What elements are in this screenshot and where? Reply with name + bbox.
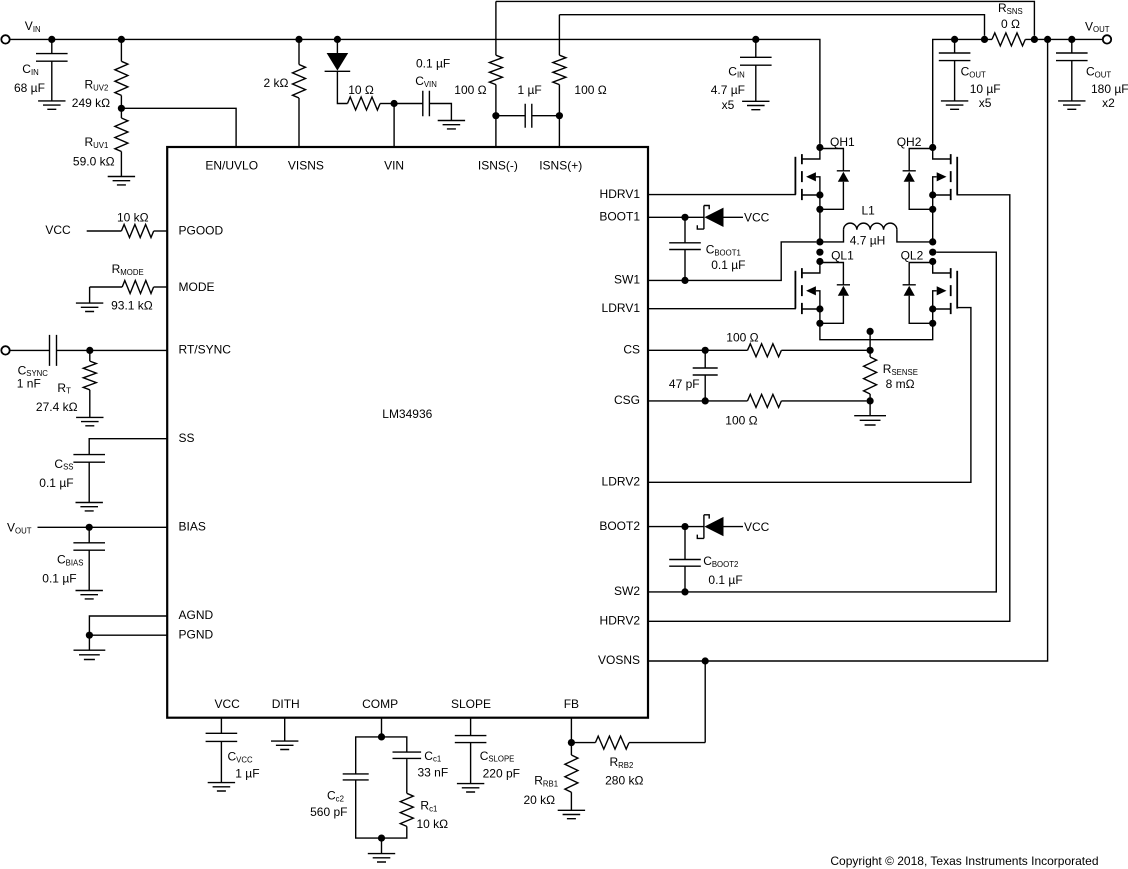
- resistor 100R CSG: [725, 394, 866, 427]
- diode DBOOT2 schottky to VCC: [697, 515, 769, 539]
- wire QL1/QL2 sources to RSENSE: [820, 323, 933, 354]
- capacitor CSLOPE 220pF: [455, 718, 520, 784]
- pin label LDRV1: [602, 301, 641, 315]
- resistor 2k VISNS: [264, 36, 306, 147]
- resistor RSENSE 8mOhm: [864, 350, 918, 401]
- wire LDRV1 to QL1 gate: [648, 308, 796, 310]
- svg-text:PGND: PGND: [179, 627, 214, 641]
- wire PGOOD pull-up: [45, 223, 121, 237]
- svg-text:Copyright © 2018, Texas Instru: Copyright © 2018, Texas Instruments Inco…: [830, 854, 1098, 868]
- wire PGND: [89, 634, 167, 636]
- svg-text:220 pF: 220 pF: [483, 766, 520, 780]
- svg-text:SS: SS: [179, 431, 195, 445]
- pin label SS: [179, 431, 195, 445]
- wire VOSNS sense line: [648, 36, 1051, 661]
- node CBOOT1 to SW1: [681, 277, 688, 284]
- pin label DITH: [272, 697, 300, 711]
- svg-text:0.1 µF: 0.1 µF: [39, 476, 73, 490]
- transistor QH2: [897, 135, 958, 213]
- svg-text:FB: FB: [564, 697, 579, 711]
- node VIN pin junction: [391, 100, 398, 107]
- svg-text:VCC: VCC: [744, 520, 770, 534]
- svg-text:VIN: VIN: [384, 159, 404, 173]
- resistor 100R ISNS(+): [553, 55, 607, 97]
- svg-text:VOSNS: VOSNS: [598, 653, 640, 667]
- node BIAS junction: [86, 524, 93, 531]
- svg-text:LDRV2: LDRV2: [602, 475, 641, 489]
- wire ISNS(+) sense line: [559, 15, 984, 147]
- svg-text:10 Ω: 10 Ω: [348, 83, 374, 97]
- svg-text:RT/SYNC: RT/SYNC: [179, 343, 232, 357]
- node RT junction: [86, 347, 93, 354]
- ground below COUT 180uF: [1058, 101, 1085, 109]
- wire QH1 source to SW1: [819, 209, 821, 242]
- svg-text:8 mΩ: 8 mΩ: [886, 377, 915, 391]
- svg-text:L1: L1: [862, 203, 876, 217]
- svg-text:SW1: SW1: [614, 273, 640, 287]
- pin label VIN: [384, 159, 404, 173]
- pin label ISNS(-): [478, 159, 518, 173]
- pin label HDRV2: [600, 614, 641, 628]
- svg-text:VCC: VCC: [45, 223, 71, 237]
- svg-text:DITH: DITH: [272, 697, 300, 711]
- capacitor CBIAS 0.1uF: [42, 527, 105, 590]
- wire CSG pin: [648, 400, 748, 402]
- node CBOOT2 to SW2: [681, 588, 688, 595]
- node SW1 mid dot: [816, 249, 823, 256]
- wire FB to VOSNS: [704, 661, 706, 743]
- svg-text:ISNS(+): ISNS(+): [539, 159, 582, 173]
- wire DITH to ground: [284, 718, 286, 741]
- pin label VISNS: [288, 159, 324, 173]
- capacitor CVCC 1uF: [206, 718, 260, 783]
- svg-text:BOOT1: BOOT1: [599, 210, 640, 224]
- pin label LDRV2: [602, 475, 641, 489]
- ground at DITH: [271, 741, 298, 749]
- resistor RUV1 59k: [73, 108, 128, 176]
- pin label RT/SYNC: [179, 343, 232, 357]
- svg-text:QL1: QL1: [831, 249, 854, 263]
- svg-text:x5: x5: [722, 98, 735, 112]
- diode D1 input: [325, 36, 351, 104]
- transistor QH1: [795, 135, 855, 213]
- resistor RSNS 0R: [981, 1, 1038, 46]
- svg-text:180 µF: 180 µF: [1091, 82, 1128, 96]
- svg-text:59.0 kΩ: 59.0 kΩ: [73, 154, 115, 168]
- node COMP network bottom: [378, 835, 385, 842]
- svg-text:2 kΩ: 2 kΩ: [264, 76, 289, 90]
- ground below RT: [76, 417, 103, 425]
- svg-text:93.1 kΩ: 93.1 kΩ: [111, 299, 153, 313]
- pin label SW1: [614, 273, 640, 287]
- ground below COUT 10uF: [941, 101, 968, 109]
- node SYNC input terminal: [1, 346, 9, 354]
- wire BOOT2: [648, 526, 704, 528]
- pin label VOSNS: [598, 653, 640, 667]
- wire HDRV1 to QH1 gate: [648, 194, 796, 196]
- copyright notice: [830, 854, 1098, 868]
- pin label BOOT2: [599, 519, 640, 533]
- svg-text:VCC: VCC: [215, 697, 241, 711]
- svg-text:CSG: CSG: [614, 393, 640, 407]
- resistor RRB2 280k: [571, 736, 705, 788]
- node EN/UVLO junction: [118, 105, 125, 112]
- pin label MODE: [179, 280, 215, 294]
- node FB junction: [568, 739, 575, 746]
- wire LDRV2 to QL2 gate: [648, 308, 971, 483]
- wire EN/UVLO to IC: [121, 108, 236, 147]
- pin label CSG: [614, 393, 640, 407]
- pin label SW2: [614, 584, 640, 598]
- svg-text:HDRV1: HDRV1: [600, 187, 641, 201]
- op-amp U1 LM34936 controller IC: [167, 147, 648, 718]
- node BOOT1 junction: [681, 214, 688, 221]
- capacitor CVIN 0.1uF: [394, 56, 451, 120]
- capacitor Cc1 33nF: [382, 737, 449, 793]
- ground below CVIN: [438, 121, 465, 129]
- svg-text:CS: CS: [623, 343, 640, 357]
- svg-text:QH1: QH1: [830, 135, 855, 149]
- wire HDRV2 to QH2 gate: [648, 195, 1010, 622]
- svg-text:0.1 µF: 0.1 µF: [711, 258, 745, 272]
- svg-text:100 Ω: 100 Ω: [574, 83, 606, 97]
- pin label CS: [623, 343, 640, 357]
- wire RSENSE to ground: [869, 401, 871, 416]
- wire ISNS(-) sense line: [496, 1, 1035, 147]
- svg-text:280 kΩ: 280 kΩ: [605, 774, 643, 788]
- node VIN input terminal: [1, 19, 40, 43]
- svg-text:0 Ω: 0 Ω: [1001, 17, 1020, 31]
- svg-text:68 µF: 68 µF: [14, 81, 45, 95]
- svg-text:BOOT2: BOOT2: [599, 519, 640, 533]
- resistor RRB1 20k: [524, 743, 578, 811]
- resistor 100R ISNS(-): [454, 55, 502, 97]
- node AGND/PGND junction: [86, 632, 93, 639]
- ground below COMP network: [368, 854, 395, 862]
- svg-text:SW2: SW2: [614, 584, 640, 598]
- capacitor COUT 10uF x5: [939, 36, 1001, 110]
- capacitor CIN 4.7uF x5: [711, 36, 772, 112]
- svg-text:MODE: MODE: [179, 280, 215, 294]
- ground below RSENSE: [854, 416, 886, 425]
- wire COMP network to ground: [381, 838, 383, 854]
- svg-text:10 kΩ: 10 kΩ: [417, 817, 449, 831]
- svg-text:PGOOD: PGOOD: [179, 223, 224, 237]
- diode DBOOT1 schottky to VCC: [697, 206, 769, 230]
- svg-text:BIAS: BIAS: [179, 520, 206, 534]
- resistor 10k PGOOD: [117, 211, 167, 238]
- wire VIN rail: [9, 39, 820, 143]
- ground below CVCC: [208, 783, 235, 791]
- wire CS pin: [648, 349, 748, 351]
- resistor 10R VIN filter: [348, 83, 395, 110]
- svg-text:COMP: COMP: [362, 697, 398, 711]
- wire BIAS from VOUT: [7, 521, 167, 536]
- svg-text:LM34936: LM34936: [382, 407, 432, 421]
- ground below CSLOPE: [457, 784, 484, 792]
- capacitor 1uF ISNS filter: [492, 83, 563, 128]
- svg-text:0.1 µF: 0.1 µF: [42, 572, 76, 586]
- svg-text:1 nF: 1 nF: [17, 376, 41, 390]
- pin label BIAS: [179, 520, 206, 534]
- node CSG filter junction: [702, 397, 709, 404]
- wire QH2 source to SW2: [932, 209, 934, 242]
- svg-text:0.1 µF: 0.1 µF: [416, 56, 450, 70]
- node VOUT output terminal: [1085, 19, 1111, 43]
- capacitor CSYNC 1nF: [9, 335, 167, 391]
- transistor QL1: [795, 249, 854, 327]
- svg-text:560 pF: 560 pF: [310, 805, 347, 819]
- svg-text:100 Ω: 100 Ω: [726, 330, 758, 344]
- svg-text:ISNS(-): ISNS(-): [478, 159, 518, 173]
- wire BOOT1: [648, 216, 704, 218]
- pin label FB: [564, 697, 579, 711]
- pin label EN/UVLO: [205, 159, 258, 173]
- ground at RMODE: [76, 303, 103, 311]
- resistor RUV2 249k: [72, 36, 128, 110]
- svg-text:20 kΩ: 20 kΩ: [524, 793, 556, 807]
- capacitor COUT 180uF x2: [1056, 36, 1128, 110]
- wire SW2 to switch node: [648, 252, 996, 592]
- pin label AGND: [179, 608, 214, 622]
- svg-text:33 nF: 33 nF: [418, 765, 449, 779]
- svg-text:HDRV2: HDRV2: [600, 614, 641, 628]
- svg-text:VISNS: VISNS: [288, 159, 324, 173]
- svg-text:VCC: VCC: [744, 211, 770, 225]
- svg-text:x2: x2: [1102, 96, 1115, 110]
- svg-text:LDRV1: LDRV1: [602, 301, 641, 315]
- resistor RT 27.4k: [36, 350, 96, 417]
- node CSG junction at RSENSE: [867, 397, 874, 404]
- pin label PGOOD: [179, 223, 224, 237]
- pin label BOOT1: [599, 210, 640, 224]
- pin label PGND: [179, 627, 214, 641]
- node VOSNS junction: [702, 657, 709, 664]
- svg-text:1 µF: 1 µF: [518, 83, 542, 97]
- capacitor CIN 68uF: [14, 36, 68, 101]
- node CS filter junction: [702, 347, 709, 354]
- pin label COMP: [362, 697, 398, 711]
- ground below RUV1: [108, 177, 135, 185]
- capacitor Cc2 560pF: [310, 737, 381, 838]
- wire PGND to ground: [88, 635, 90, 650]
- ground below CIN: [38, 101, 65, 109]
- node COMP junction: [378, 733, 385, 740]
- ground below CBIAS: [76, 591, 103, 599]
- wire COMP stub: [381, 718, 383, 737]
- resistor RMODE 93.1k: [90, 262, 168, 313]
- capacitor 47pF CS filter: [669, 350, 718, 401]
- svg-text:EN/UVLO: EN/UVLO: [205, 159, 258, 173]
- node BOOT2 junction: [681, 523, 688, 530]
- transistor QL2: [901, 249, 958, 327]
- pin label VCC: [215, 697, 241, 711]
- resistor Rc1 10k: [382, 793, 449, 838]
- node SW2 mid dot: [929, 249, 936, 256]
- wire SW1 to switch node: [648, 242, 816, 281]
- svg-text:QL2: QL2: [901, 249, 924, 263]
- svg-text:AGND: AGND: [179, 608, 214, 622]
- svg-text:SLOPE: SLOPE: [451, 697, 491, 711]
- svg-text:QH2: QH2: [897, 135, 922, 149]
- svg-text:249 kΩ: 249 kΩ: [72, 96, 110, 110]
- svg-text:27.4 kΩ: 27.4 kΩ: [36, 400, 78, 414]
- svg-text:47 pF: 47 pF: [669, 377, 700, 391]
- pin label HDRV1: [600, 187, 641, 201]
- svg-text:0.1 µF: 0.1 µF: [708, 573, 742, 587]
- svg-text:4.7 µH: 4.7 µH: [850, 234, 886, 248]
- svg-text:1 µF: 1 µF: [235, 767, 259, 781]
- capacitor CBOOT2 0.1uF: [669, 527, 742, 592]
- wire VOUT rail: [933, 39, 1103, 143]
- resistor 100R CS: [726, 330, 866, 357]
- wire VIN pin: [393, 104, 395, 148]
- capacitor CSS 0.1uF: [39, 439, 167, 503]
- svg-text:100 Ω: 100 Ω: [454, 83, 486, 97]
- pin label ISNS(+): [539, 159, 582, 173]
- svg-text:10 kΩ: 10 kΩ: [117, 211, 149, 225]
- svg-text:x5: x5: [979, 96, 992, 110]
- ground below RRB1: [558, 810, 585, 818]
- inductor L1 4.7uH: [816, 203, 936, 247]
- svg-text:10 µF: 10 µF: [970, 82, 1001, 96]
- ground below CIN 4.7uF: [742, 101, 769, 109]
- svg-text:4.7 µF: 4.7 µF: [711, 83, 745, 97]
- wire FB stub: [570, 718, 572, 743]
- ground at PGND: [74, 650, 106, 659]
- capacitor CBOOT1 0.1uF: [669, 217, 745, 280]
- ground below CSS: [76, 503, 103, 511]
- svg-text:100 Ω: 100 Ω: [725, 414, 757, 428]
- wire AGND: [89, 616, 167, 635]
- pin label SLOPE: [451, 697, 491, 711]
